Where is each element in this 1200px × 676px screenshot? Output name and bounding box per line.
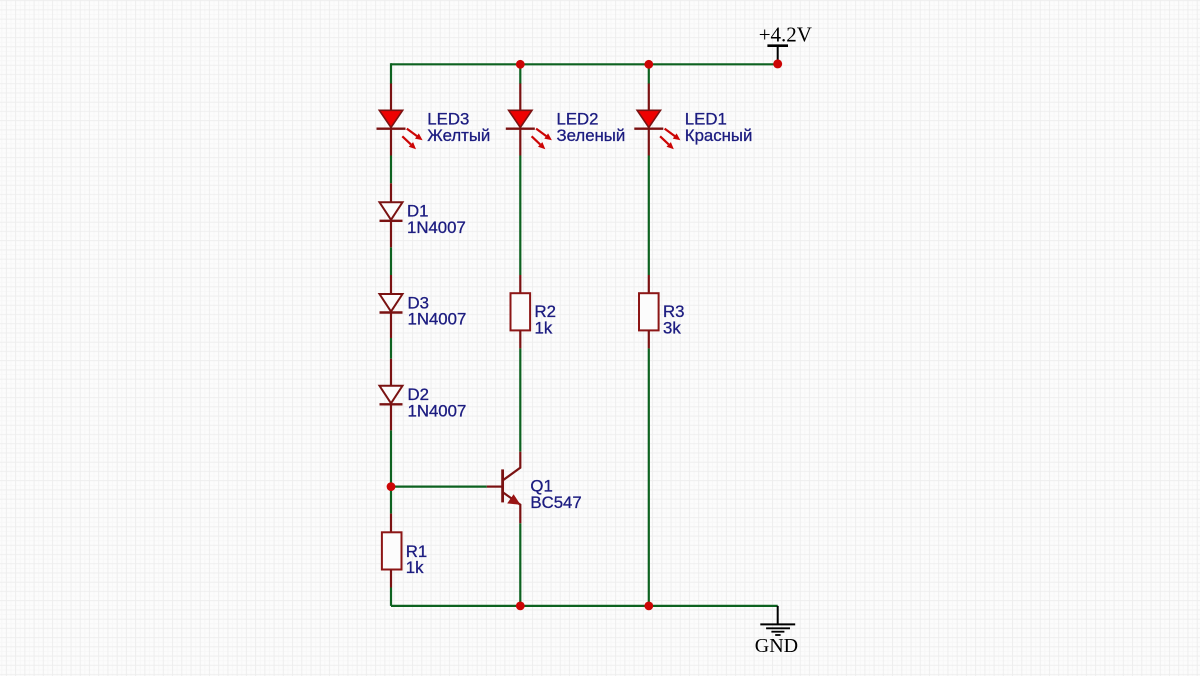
wire LED2 to R2	[519, 156, 521, 276]
wire top rail	[391, 63, 778, 65]
svg-text:+4.2V: +4.2V	[759, 22, 812, 46]
label +4.2V	[759, 22, 812, 46]
label LED1 Красный	[685, 110, 753, 145]
wire LED1 to R3	[648, 156, 650, 276]
junction at power pin	[773, 59, 782, 68]
transistor Q1	[487, 452, 521, 524]
label D3 1N4007	[408, 293, 467, 328]
label Q1 BC547	[530, 477, 581, 512]
diode D2	[380, 359, 403, 431]
power +4.2V	[767, 46, 788, 62]
wire R3 to bottom rail	[648, 348, 650, 606]
wire LED3 branch top	[390, 63, 392, 84]
svg-text:1k: 1k	[535, 319, 553, 338]
junction at top rail and LED2	[516, 60, 525, 69]
wire LED1 branch top	[648, 64, 650, 84]
junction at bottom rail and Q1 emitter	[516, 602, 525, 611]
svg-text:BC547: BC547	[530, 493, 581, 512]
svg-text:Желтый: Желтый	[427, 126, 490, 145]
wire D1 to D3	[390, 247, 392, 275]
svg-text:1N4007: 1N4007	[408, 310, 467, 329]
wire LED3 to D1	[390, 156, 392, 184]
label GND	[755, 635, 798, 657]
resistor R2	[511, 275, 531, 348]
label D1 1N4007	[407, 202, 466, 237]
wire D3 to D2	[390, 338, 392, 359]
ground	[760, 606, 795, 635]
label R2 1k	[535, 302, 556, 337]
wire D2 to node and R1	[390, 430, 392, 513]
junction at Q1 base node	[387, 482, 396, 491]
wire LED2 branch top	[519, 64, 521, 84]
svg-text:Красный: Красный	[685, 126, 753, 145]
wire Q1 emitter to bottom rail	[519, 523, 521, 606]
resistor R1	[382, 514, 402, 588]
junction at top rail and LED1	[644, 60, 653, 69]
resistor R3	[639, 275, 659, 348]
junction at bottom rail and R3	[644, 602, 653, 611]
svg-text:1N4007: 1N4007	[407, 218, 466, 237]
label R1 1k	[406, 542, 427, 577]
diode D3	[380, 275, 403, 338]
label LED3 Желтый	[427, 110, 490, 145]
label LED2 Зеленый	[557, 110, 626, 145]
svg-text:1k: 1k	[406, 558, 424, 577]
LED LED1	[634, 84, 680, 156]
wire R2 to Q1 collector	[519, 348, 521, 451]
wire bottom rail	[391, 605, 778, 607]
svg-text:1N4007: 1N4007	[408, 402, 467, 421]
LED LED2	[506, 84, 552, 156]
LED LED3	[377, 84, 423, 156]
diode D1	[380, 183, 403, 247]
wire R1 to bottom rail	[390, 588, 392, 606]
label R3 3k	[663, 302, 684, 337]
wire base node to Q1	[391, 486, 487, 488]
svg-text:GND: GND	[755, 635, 798, 657]
svg-text:3k: 3k	[663, 319, 681, 338]
svg-text:Зеленый: Зеленый	[557, 126, 626, 145]
label D2 1N4007	[408, 385, 467, 420]
